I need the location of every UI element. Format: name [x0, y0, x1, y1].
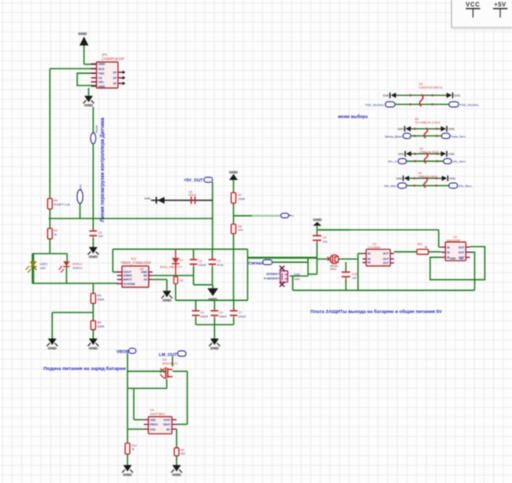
svg-text:GND: GND — [449, 177, 455, 181]
svg-text:Плата ЗАЩИТы выхода на батарею: Плата ЗАЩИТы выхода на батарею и общие п… — [310, 308, 442, 314]
svg-text:Шина_Данн: Шина_Данн — [385, 134, 402, 138]
svg-text:GND: GND — [210, 345, 219, 350]
svg-text:LED: LED — [40, 266, 47, 270]
svg-text:GND: GND — [123, 472, 132, 477]
svg-text:GND: GND — [450, 257, 456, 261]
svg-text:GND: GND — [89, 345, 98, 350]
svg-text:MAX1555: MAX1555 — [447, 238, 461, 242]
svg-text:GND: GND — [396, 177, 402, 181]
svg-text:VSS: VSS — [150, 427, 156, 431]
svg-text:1k: 1k — [54, 232, 58, 236]
svg-text:GND: GND — [89, 254, 98, 259]
svg-text:24v_Serv: 24v_Serv — [453, 160, 467, 164]
svg-text:TXD_SIGNAL: TXD_SIGNAL — [460, 103, 480, 107]
svg-text:OUT: OUT — [383, 257, 389, 261]
svg-text:BSS84LT: BSS84LT — [267, 272, 280, 276]
svg-text:100nF: 100nF — [200, 314, 208, 318]
svg-text:GND: GND — [229, 169, 238, 174]
svg-text:CDSOT23-SM712: CDSOT23-SM712 — [419, 85, 443, 89]
svg-text:78M05_STABILIZER: 78M05_STABILIZER — [121, 261, 152, 265]
svg-text:VBAT: VBAT — [163, 423, 170, 427]
svg-text:600R: 600R — [97, 325, 104, 329]
svg-text:OUT: OUT — [459, 245, 465, 249]
svg-text:GND: GND — [172, 472, 181, 477]
svg-text:TS-USBLC6-2-SC6: TS-USBLC6-2-SC6 — [415, 121, 440, 125]
svg-text:100nF: 100nF — [238, 314, 246, 318]
svg-text:+5V: +5V — [494, 2, 506, 8]
svg-text:Сигнал: Сигнал — [248, 260, 264, 265]
svg-text:1P: 1P — [113, 82, 117, 86]
svg-text:IN: IN — [368, 257, 371, 261]
svg-text:10u: 10u — [98, 234, 103, 238]
svg-text:24v_Mon: 24v_Mon — [384, 184, 397, 188]
svg-text:GND: GND — [313, 217, 322, 222]
svg-text:GND: GND — [448, 127, 454, 131]
svg-text:GND: GND — [144, 196, 150, 200]
svg-text:IC2: IC2 — [131, 257, 136, 261]
svg-text:Reset: Reset — [95, 125, 99, 133]
svg-text:VDD: VDD — [150, 418, 156, 422]
svg-text:+5V_OUT: +5V_OUT — [184, 178, 204, 183]
svg-text:TXD_SIGNAL: TXD_SIGNAL — [365, 103, 385, 107]
svg-text:2k2: 2k2 — [181, 452, 186, 456]
svg-text:IN: IN — [447, 250, 450, 254]
svg-text:LM_OUT: LM_OUT — [159, 352, 177, 357]
svg-text:CH340PCB-DIP: CH340PCB-DIP — [102, 57, 125, 61]
svg-text:GND: GND — [98, 62, 106, 66]
svg-text:GND: GND — [454, 94, 460, 98]
svg-text:6402: 6402 — [330, 267, 337, 271]
svg-text:MCP73831: MCP73831 — [150, 412, 165, 416]
svg-text:150R: 150R — [238, 197, 245, 201]
svg-text:GND: GND — [48, 345, 57, 350]
svg-text:GND: GND — [162, 298, 171, 303]
svg-text:24v_In: 24v_In — [388, 160, 398, 164]
svg-text:RLD: RLD — [98, 67, 105, 71]
svg-text:P-MOSFET: P-MOSFET — [264, 277, 280, 281]
svg-text:NC: NC — [166, 427, 170, 431]
svg-text:SYSTEM: SYSTEM — [123, 282, 135, 286]
svg-text:GND: GND — [98, 85, 106, 89]
svg-text:100nF: 100nF — [198, 263, 206, 267]
svg-text:BSS138LT1: BSS138LT1 — [163, 361, 179, 365]
svg-text:A0: A0 — [144, 278, 148, 282]
svg-text:меню выбора: меню выбора — [338, 114, 368, 119]
svg-text:VBOB: VBOB — [117, 349, 130, 354]
svg-text:Gate: Gate — [294, 277, 300, 281]
svg-text:GND: GND — [78, 31, 87, 36]
svg-text:NC: NC — [460, 257, 464, 261]
svg-text:STAT: STAT — [164, 418, 171, 422]
svg-text:PROG: PROG — [150, 423, 158, 427]
svg-text:Линия перезагрузки контроллера: Линия перезагрузки контроллера Датчика — [100, 117, 106, 222]
svg-text:OUT: OUT — [459, 250, 465, 254]
svg-text:IN: IN — [368, 261, 371, 265]
svg-text:GND: GND — [398, 152, 404, 156]
svg-text:IN: IN — [447, 245, 450, 249]
svg-text:1P: 1P — [113, 71, 117, 75]
svg-text:100nF: 100nF — [219, 314, 227, 318]
svg-text:470nF: 470nF — [189, 193, 197, 197]
svg-text:600R: 600R — [97, 297, 104, 301]
svg-text:GND: GND — [397, 127, 403, 131]
svg-text:1uF: 1uF — [352, 276, 357, 280]
svg-text:Data_Serv: Data_Serv — [451, 134, 466, 138]
svg-text:R11: R11 — [417, 242, 422, 246]
svg-text:Подача питания на заряд батаре: Подача питания на заряд батареи — [43, 365, 125, 372]
svg-text:1P: 1P — [113, 76, 117, 80]
svg-text:GND: GND — [294, 273, 300, 277]
svg-text:10u: 10u — [323, 239, 328, 243]
svg-text:24v_Mon_: 24v_Mon_ — [459, 184, 474, 188]
svg-text:47uF: 47uF — [217, 263, 224, 267]
svg-text:BSS2_GB0RT1T: BSS2_GB0RT1T — [160, 265, 182, 269]
svg-text:D1: D1 — [179, 258, 183, 262]
svg-text:OUT: OUT — [383, 261, 389, 265]
svg-text:47k: 47k — [238, 228, 243, 232]
svg-text:SDA: SDA — [78, 184, 82, 190]
svg-text:USBLC6-2SC6: USBLC6-2SC6 — [419, 150, 439, 154]
svg-text:VCC: VCC — [466, 2, 481, 8]
svg-text:GND: GND — [84, 103, 93, 108]
svg-text:TXD: TXD — [98, 72, 105, 76]
svg-text:ZOPLC: ZOPLC — [73, 266, 84, 270]
svg-text:+5V: +5V — [139, 267, 144, 271]
svg-text:OUT: OUT — [383, 252, 389, 256]
svg-text:LTC4054: LTC4054 — [368, 246, 380, 250]
svg-text:GND: GND — [448, 152, 454, 156]
svg-text:DCDFT 2.2k: DCDFT 2.2k — [54, 202, 71, 206]
svg-text:GND: GND — [383, 94, 389, 98]
svg-text:IN: IN — [368, 252, 371, 256]
svg-text:C0: C0 — [179, 278, 183, 282]
svg-text:USBLC6-2SC6: USBLC6-2SC6 — [418, 175, 438, 179]
